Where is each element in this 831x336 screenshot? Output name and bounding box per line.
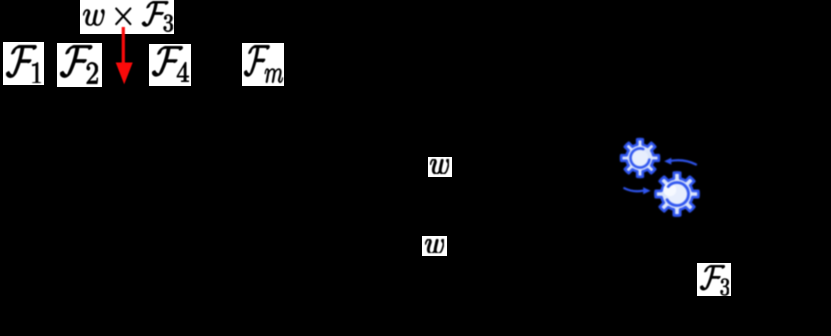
gears icon (process/exchange)	[600, 115, 720, 235]
label F4	[149, 44, 192, 86]
label F1	[3, 42, 44, 85]
label F3	[697, 263, 731, 296]
label Fm	[242, 43, 284, 86]
label w x F3	[80, 0, 174, 34]
gear G2 center disc	[667, 184, 687, 204]
label F2	[57, 43, 102, 87]
label w (top)	[428, 157, 453, 177]
label w (bottom)	[422, 236, 447, 256]
arrow A1 top (pointing left)	[670, 160, 696, 164]
gear G1 center disc	[632, 150, 648, 166]
gear G1 inner ring	[631, 148, 650, 167]
gear G2 inner ring	[667, 183, 688, 206]
gear G2 highlight	[663, 183, 676, 196]
gear G2 (bottom-right) body	[656, 173, 699, 216]
red arrow (w x F3 pointing into row)	[110, 24, 138, 88]
arrow A2 bottom (pointing right)	[624, 188, 643, 191]
gear G1 (top-left) body	[621, 139, 659, 177]
